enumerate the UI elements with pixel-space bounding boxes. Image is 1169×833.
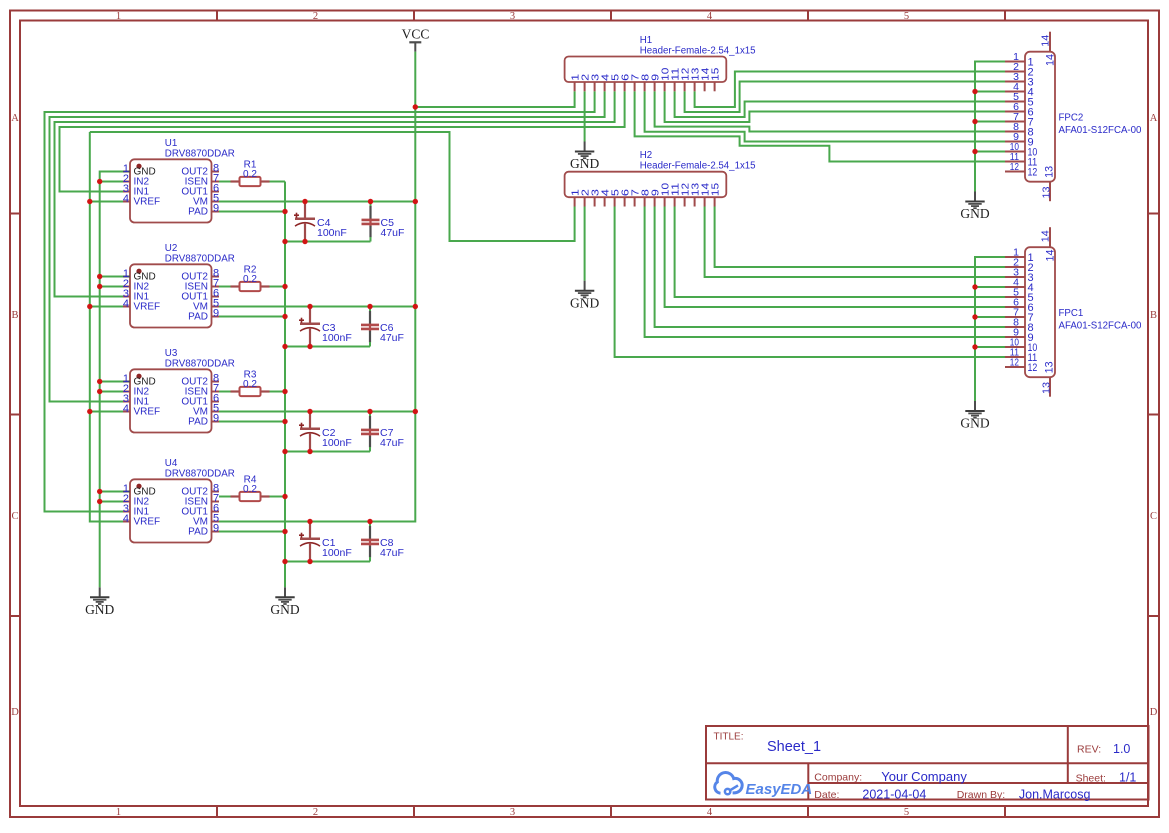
capacitor C5 47uF [362,202,405,242]
wire H1.8 to FPC2.9 [645,91,1005,141]
junction node (99.7,501.5) [97,499,102,504]
op-amp style IC U2 DRV8870DDAR [123,243,235,328]
svg-text:Company:: Company: [814,772,862,784]
frame tick bottom [1004,806,1006,817]
wire GND rail stub [100,391,123,393]
svg-text:100nF: 100nF [322,437,352,449]
wire H1.12 to FPC2.3 [685,82,1005,113]
svg-text:47uF: 47uF [381,227,405,239]
svg-text:12: 12 [1010,357,1019,369]
junction node (285,346.5) [282,344,287,349]
svg-text:Date:: Date: [814,789,839,801]
wire R right [268,286,286,288]
svg-text:Sheet:: Sheet: [1076,773,1106,785]
svg-text:14: 14 [1044,54,1056,66]
svg-text:PAD: PAD [188,207,208,218]
wire H2.11 to FPC1.5 [675,207,1005,298]
op-amp style IC U4 DRV8870DDAR [123,458,235,543]
resistor R1 0.2 [231,159,270,186]
svg-text:GND: GND [960,206,989,221]
svg-text:3: 3 [510,11,515,22]
junction node (305,201.5) [302,199,307,204]
svg-text:0.2: 0.2 [243,274,257,285]
capacitor C2 100nF polarized [299,412,352,452]
junction node (975,91.5) [972,89,977,94]
svg-text:100nF: 100nF [322,547,352,559]
wire GND rail stub [100,181,123,183]
wire H1.7 to FPC2.11 [635,91,1005,161]
svg-text:PAD: PAD [188,417,208,428]
junction node (99.7,381.5) [97,379,102,384]
svg-text:VREF: VREF [134,302,161,313]
wire PAD to GND rail [219,316,285,318]
wire net H1.3 to U4 IN1 [45,91,595,511]
capacitor C6 47uF [361,307,404,347]
capacitor C1 100nF polarized [299,522,352,562]
junction node (370,411.5) [367,409,372,414]
svg-text:15: 15 [711,182,722,196]
frame tick left [10,414,20,416]
junction node (370,306.5) [367,304,372,309]
svg-text:Drawn By:: Drawn By: [957,789,1005,801]
wire VREF line to H2.1 [90,132,575,241]
wire H2.10 to FPC1.6 [665,207,1005,308]
svg-text:14: 14 [1044,250,1056,262]
title block [706,726,1149,800]
wire H2.15 to FPC1.2 [715,207,1005,268]
frame tick right [1148,414,1158,416]
svg-text:9: 9 [213,413,219,425]
wire H2.14 to FPC1.3 [705,207,1005,278]
svg-text:EasyEDA: EasyEDA [746,781,813,798]
svg-text:12: 12 [1010,161,1019,173]
wire FPC2 GND stub [975,121,1005,123]
svg-text:100nF: 100nF [317,227,347,239]
wire H1.1 to VCC rail [415,91,574,107]
frame tick bottom [610,806,612,817]
svg-text:VCC: VCC [402,27,430,42]
junction node (99.7,181.5) [97,179,102,184]
junction node (310,411.5) [307,409,312,414]
svg-text:U1: U1 [165,138,178,149]
svg-text:4: 4 [123,193,129,205]
svg-text:FPC2: FPC2 [1059,112,1084,123]
capacitor C4 100nF polarized [294,202,347,242]
svg-text:13: 13 [1041,186,1053,198]
svg-text:13: 13 [1044,361,1056,373]
wire VREF stub [90,411,123,413]
svg-text:13: 13 [1041,382,1053,394]
wire GND rail stub [100,276,123,278]
svg-text:47uF: 47uF [380,437,404,449]
junction node (415.3,107) [413,104,418,109]
op-amp style IC U3 DRV8870DDAR [123,348,235,433]
svg-text:15: 15 [711,67,722,81]
svg-text:1/1: 1/1 [1119,771,1136,785]
svg-text:Sheet_1: Sheet_1 [767,739,821,755]
svg-text:GND: GND [570,156,599,171]
ground GND FPC2 [960,192,989,222]
svg-text:14: 14 [1040,230,1052,242]
svg-text:9: 9 [213,203,219,215]
svg-text:0.2: 0.2 [243,379,257,390]
capacitor C7 47uF [361,412,404,452]
svg-text:2: 2 [313,807,318,818]
junction node (285,531.5) [282,529,287,534]
wire R1 right [268,181,286,183]
ground GND sense rail [270,587,299,617]
junction node (305,241.5) [302,239,307,244]
svg-text:100nF: 100nF [322,332,352,344]
svg-text:GND: GND [960,416,989,431]
svg-text:FPC1: FPC1 [1059,308,1084,319]
frame tick top [216,11,218,21]
svg-text:TITLE:: TITLE: [714,732,744,743]
svg-text:47uF: 47uF [380,547,404,559]
wire U2 cap bottom [285,346,370,348]
wire ISEN pin to R [219,181,233,183]
wire PAD to GND rail [219,531,285,533]
resistor R3 0.2 [231,369,270,396]
capacitor C8 47uF [361,522,404,562]
svg-text:3: 3 [510,807,515,818]
svg-text:2: 2 [313,11,318,22]
svg-text:DRV8870DDAR: DRV8870DDAR [165,148,235,159]
svg-text:D: D [1150,707,1158,718]
junction node (285,421.5) [282,419,287,424]
frame tick left [10,615,20,617]
junction node (310,561.5) [307,559,312,564]
ground GND H1.2 [570,142,599,172]
svg-text:U3: U3 [165,348,178,359]
ground GND H2.2 [570,281,599,311]
wire H1.13 to FPC2.2 [695,72,1005,108]
junction node (285,241.5) [282,239,287,244]
junction node (310,521.5) [307,519,312,524]
svg-text:2021-04-04: 2021-04-04 [862,787,926,801]
power VCC [402,27,430,52]
EasyEDA logo [715,773,812,798]
svg-text:C: C [1150,511,1157,522]
wire VREF stub [90,306,123,308]
svg-text:A: A [1150,113,1158,124]
svg-text:VREF: VREF [134,517,161,528]
svg-text:0.2: 0.2 [243,169,257,180]
frame tick left [10,213,20,215]
svg-text:0.2: 0.2 [243,484,257,495]
junction node (370.5,201.5) [368,199,373,204]
wire H1.9 to FPC2.8 [655,91,1005,131]
wire GND rail stub [100,501,123,503]
wire ISEN pin to R [219,391,233,393]
svg-text:Header-Female-2.54_1x15: Header-Female-2.54_1x15 [640,45,756,56]
svg-text:9: 9 [213,308,219,320]
wire sense GND rail [284,182,286,588]
svg-text:1: 1 [116,11,121,22]
frame tick bottom [216,806,218,817]
connector FPC2 AFA01-S12FCA-00 [1005,32,1142,202]
svg-text:B: B [11,310,18,321]
frame tick right [1148,213,1158,215]
wire GND rail stub [100,491,123,493]
svg-text:GND: GND [570,295,599,310]
wire GND rail stub [100,286,123,288]
junction node (285,451.5) [282,449,287,454]
wire left GND rail [100,172,123,588]
junction node (285,561.5) [282,559,287,564]
junction node (975,347) [972,344,977,349]
frame tick bottom [413,806,415,817]
svg-text:12: 12 [1028,167,1038,179]
svg-text:4: 4 [707,11,713,22]
svg-text:4: 4 [707,807,713,818]
svg-text:DRV8870DDAR: DRV8870DDAR [165,468,235,479]
wire H1.2 to GND [584,91,586,141]
wire GND rail stub [100,381,123,383]
svg-text:4: 4 [123,298,129,310]
svg-text:5: 5 [904,11,909,22]
wire H2.5 to FPC1.11 [615,207,1005,358]
ground GND FPC1 [960,401,989,431]
svg-text:PAD: PAD [188,527,208,538]
wire U3 VM line [219,411,415,413]
svg-text:Header-Female-2.54_1x15: Header-Female-2.54_1x15 [640,161,756,172]
svg-text:H1: H1 [640,35,652,46]
svg-text:47uF: 47uF [380,332,404,344]
wire FPC1 GND stub [975,316,1005,318]
svg-text:9: 9 [213,523,219,535]
wire PAD to GND rail [219,211,285,213]
junction node (975,317) [972,314,977,319]
wire FPC2 GND stub [975,91,1005,93]
svg-text:D: D [11,707,19,718]
wire U1 VM line [219,201,415,203]
junction node (975,121.5) [972,119,977,124]
wire net H1.6 to U1 IN1 [60,91,625,191]
svg-text:A: A [11,113,19,124]
junction node (285,391.5) [282,389,287,394]
frame tick top [610,11,612,21]
junction node (285,496.5) [282,494,287,499]
junction node (370,521.5) [367,519,372,524]
junction node (285,316.5) [282,314,287,319]
wire FPC1 GND rail [975,257,1005,401]
svg-text:Jon.Marcosg: Jon.Marcosg [1019,787,1091,801]
junction node (310,306.5) [307,304,312,309]
svg-text:B: B [1150,310,1157,321]
wire R right [268,391,286,393]
junction node (415.3,306.5) [413,304,418,309]
wire VREF vertical rail [90,132,123,522]
junction node (310,346.5) [307,344,312,349]
wire PAD to GND rail [219,421,285,423]
svg-text:C: C [11,511,18,522]
op-amp style IC U1 DRV8870DDAR [123,138,235,223]
svg-text:H2: H2 [640,150,652,161]
wire VREF stub [90,201,123,203]
wire H1.11 to FPC2.5 [675,91,1005,117]
svg-text:1: 1 [116,807,121,818]
wire FPC2 GND stub [975,151,1005,153]
header H2 Header-Female-2.54_1x15 [565,150,756,206]
wire H2.8 to FPC1.9 [645,207,1005,338]
wire R right [268,496,286,498]
junction node (285,211.5) [282,209,287,214]
junction node (99.7,276.5) [97,274,102,279]
svg-text:U4: U4 [165,458,178,469]
junction node (89.8,411.5) [87,409,92,414]
wire FPC1 GND stub [975,346,1005,348]
wire H2.9 to FPC1.8 [655,207,1005,328]
svg-text:AFA01-S12FCA-00: AFA01-S12FCA-00 [1059,125,1143,136]
frame tick bottom [807,806,809,817]
svg-text:Your Company: Your Company [881,769,967,784]
junction node (975,287) [972,284,977,289]
wire U4 cap bottom [285,561,370,563]
junction node (975,151.5) [972,149,977,154]
wire U1 cap bottom [285,241,371,243]
resistor R2 0.2 [231,264,270,291]
capacitor C3 100nF polarized [299,307,352,347]
svg-text:VREF: VREF [134,407,161,418]
junction node (415.3,411.5) [413,409,418,414]
svg-text:DRV8870DDAR: DRV8870DDAR [165,253,235,264]
svg-text:GND: GND [270,602,299,617]
junction node (310,451.5) [307,449,312,454]
wire net H1.4 to U3 IN1 [50,91,605,401]
wire U2 VM line [219,306,415,308]
svg-text:1.0: 1.0 [1113,742,1130,756]
frame tick top [1004,11,1006,21]
wire ISEN pin to R [219,496,233,498]
connector FPC1 AFA01-S12FCA-00 [1005,227,1142,397]
svg-text:GND: GND [85,602,114,617]
svg-text:12: 12 [1028,362,1038,374]
frame tick top [807,11,809,21]
wire VCC vertical rail to U4 VM [219,52,415,522]
junction node (89.8,306.5) [87,304,92,309]
wire H1.10 to FPC2.6 [665,91,1005,122]
junction node (99.7,286.5) [97,284,102,289]
svg-text:PAD: PAD [188,312,208,323]
wire H2.2 to GND [584,207,586,281]
junction node (89.8,201.5) [87,199,92,204]
svg-text:U2: U2 [165,243,178,254]
header H1 Header-Female-2.54_1x15 [565,35,756,91]
frame tick top [413,11,415,21]
wire FPC1 GND stub [975,286,1005,288]
junction node (99.7,491.5) [97,489,102,494]
svg-text:5: 5 [904,807,909,818]
frame tick right [1148,615,1158,617]
wire ISEN pin to R [219,286,233,288]
svg-text:VREF: VREF [134,197,161,208]
svg-text:DRV8870DDAR: DRV8870DDAR [165,358,235,369]
svg-text:14: 14 [1040,35,1052,47]
wire FPC2 GND rail [975,62,1005,192]
ground GND left rail [85,587,114,617]
wire net H1.5 to U2 IN1 [55,91,615,296]
svg-text:4: 4 [123,513,129,525]
wire U3 cap bottom [285,451,370,453]
svg-text:AFA01-S12FCA-00: AFA01-S12FCA-00 [1059,320,1143,331]
svg-text:4: 4 [123,403,129,415]
svg-text:13: 13 [1044,166,1056,178]
junction node (415.3,201.5) [413,199,418,204]
svg-text:REV:: REV: [1077,744,1101,756]
junction node (99.7,391.5) [97,389,102,394]
junction node (285,286.5) [282,284,287,289]
resistor R4 0.2 [231,474,270,501]
